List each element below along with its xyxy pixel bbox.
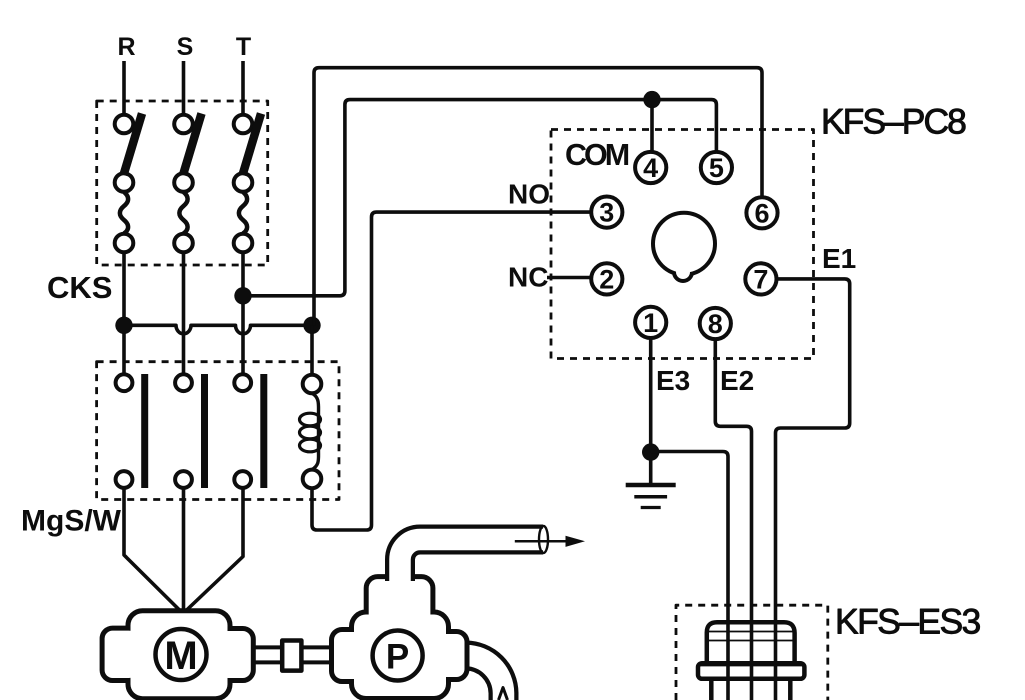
svg-text:R: R (117, 33, 135, 61)
svg-text:MgS/W: MgS/W (21, 505, 122, 538)
svg-text:M: M (164, 634, 197, 678)
svg-text:2: 2 (599, 265, 614, 295)
svg-text:KFS–ES3: KFS–ES3 (835, 602, 981, 642)
svg-text:E1: E1 (822, 243, 856, 274)
svg-text:E3: E3 (656, 365, 690, 396)
svg-text:6: 6 (754, 198, 769, 228)
svg-text:P: P (386, 638, 409, 677)
svg-text:NO: NO (508, 179, 550, 210)
svg-text:CKS: CKS (47, 270, 112, 305)
svg-text:T: T (236, 33, 251, 61)
svg-text:S: S (177, 33, 194, 61)
svg-text:COM: COM (565, 138, 629, 172)
svg-text:3: 3 (599, 198, 614, 228)
svg-text:1: 1 (643, 308, 658, 338)
svg-text:5: 5 (709, 153, 724, 183)
svg-text:KFS–PC8: KFS–PC8 (821, 102, 966, 142)
svg-text:4: 4 (643, 153, 658, 183)
svg-text:7: 7 (753, 265, 768, 295)
svg-text:8: 8 (708, 309, 723, 339)
svg-text:NC: NC (508, 262, 548, 293)
svg-text:E2: E2 (720, 365, 754, 396)
